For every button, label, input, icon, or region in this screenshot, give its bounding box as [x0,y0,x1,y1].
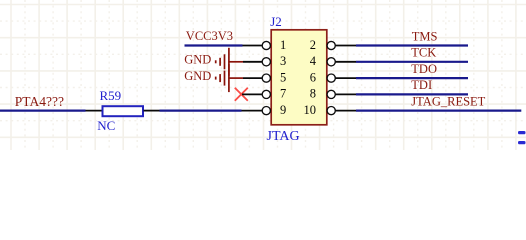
svg-text:TMS: TMS [412,29,438,43]
svg-text:GND: GND [184,53,211,67]
pin numbers even [304,38,317,117]
wire net PTA4 left segment [0,109,86,111]
svg-text:R59: R59 [100,88,122,103]
svg-text:GND: GND [184,69,211,83]
svg-text:VCC3V3: VCC3V3 [186,29,233,43]
power port GND 1 symbol [216,48,243,76]
svg-text:10: 10 [304,103,317,117]
svg-text:TDI: TDI [411,78,432,92]
connector J2 pins left (black stubs) [242,46,263,111]
svg-text:7: 7 [280,87,286,101]
wire net TCK [356,61,468,63]
resistor R59 pin 2 [144,110,160,112]
svg-text:J2: J2 [270,14,282,29]
svg-text:4: 4 [310,54,317,68]
svg-text:TCK: TCK [411,46,436,60]
wire net VCC3V3 [185,44,243,46]
svg-text:JTAG_RESET: JTAG_RESET [411,94,485,108]
clipped text fragment bottom right [518,131,526,134]
wire net JTAG_RESET [356,109,521,111]
pin circles right [327,41,335,114]
svg-text:5: 5 [280,70,286,84]
wire net TMS [356,44,468,46]
svg-text:2: 2 [310,38,316,52]
svg-text:PTA4???: PTA4??? [15,94,64,109]
svg-text:6: 6 [310,70,316,84]
svg-text:NC: NC [97,118,115,133]
connector J2 pins right (black stubs) [335,46,356,111]
no-ERC marker on pin 7 [235,88,248,101]
pin circles left [262,41,270,114]
svg-text:8: 8 [310,87,316,101]
svg-text:9: 9 [280,103,286,117]
wire net TDO [356,77,468,79]
wire net PTA4 to pin 9 [160,109,242,111]
resistor R59 pin 1 [86,110,103,112]
svg-text:1: 1 [280,38,286,52]
resistor R59 body [103,106,144,116]
pin numbers odd [280,38,286,117]
grid solid lines [0,0,526,150]
clipped text fragment bottom right 2 [518,141,526,144]
wire net TDI [356,93,468,95]
svg-text:3: 3 [280,54,286,68]
connector J2 body [271,30,327,125]
power port GND 2 symbol [216,64,243,92]
grid dotted lines [0,0,526,150]
svg-text:TDO: TDO [411,62,437,76]
svg-text:JTAG: JTAG [267,129,300,144]
